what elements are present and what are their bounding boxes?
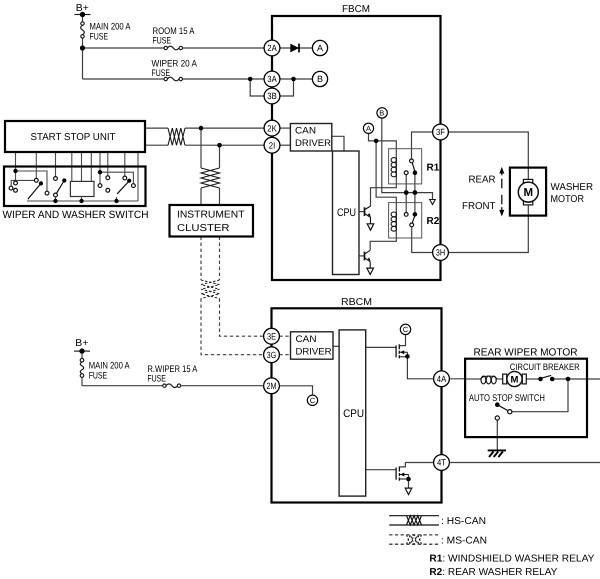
svg-text:R1: WINDSHIELD WASHER RELAY: R1: WINDSHIELD WASHER RELAY: [429, 554, 594, 565]
svg-text:FUSE: FUSE: [89, 371, 108, 382]
svg-text:FUSE: FUSE: [90, 32, 109, 43]
svg-text:START STOP UNIT: START STOP UNIT: [31, 132, 116, 143]
svg-text:WASHER: WASHER: [551, 182, 594, 193]
svg-text:WIPER AND WASHER SWITCH: WIPER AND WASHER SWITCH: [3, 209, 149, 221]
svg-text:C: C: [310, 396, 316, 405]
svg-text:2M: 2M: [267, 381, 277, 391]
svg-text:CAN: CAN: [296, 334, 317, 345]
svg-text:M: M: [524, 187, 534, 199]
svg-text:A: A: [366, 124, 371, 133]
svg-text:R2: REAR WASHER RELAY: R2: REAR WASHER RELAY: [429, 567, 557, 578]
svg-text:FUSE: FUSE: [147, 374, 166, 385]
svg-text:B: B: [317, 74, 323, 84]
svg-text:B+: B+: [75, 338, 88, 349]
svg-text:4T: 4T: [437, 458, 446, 468]
svg-text:: HS-CAN: : HS-CAN: [441, 516, 486, 527]
svg-text:3E: 3E: [267, 331, 276, 341]
svg-text:REAR WIPER MOTOR: REAR WIPER MOTOR: [474, 348, 578, 359]
svg-text:INSTRUMENT: INSTRUMENT: [177, 210, 245, 221]
svg-text:CAN: CAN: [295, 126, 316, 137]
svg-text:: MS-CAN: : MS-CAN: [441, 535, 487, 546]
svg-text:C: C: [403, 325, 409, 334]
svg-text:FBCM: FBCM: [342, 4, 370, 15]
svg-text:B: B: [379, 109, 384, 118]
svg-text:DRIVER: DRIVER: [295, 138, 331, 149]
svg-text:3B: 3B: [267, 91, 276, 101]
svg-text:2K: 2K: [267, 123, 276, 133]
svg-text:4A: 4A: [437, 374, 446, 384]
svg-text:R1: R1: [427, 163, 440, 174]
svg-text:RBCM: RBCM: [341, 297, 372, 308]
svg-text:DRIVER: DRIVER: [296, 347, 332, 358]
svg-text:FUSE: FUSE: [153, 36, 172, 47]
svg-text:B+: B+: [76, 3, 89, 14]
svg-text:CLUSTER: CLUSTER: [177, 223, 230, 234]
svg-text:M: M: [511, 374, 519, 385]
svg-text:FUSE: FUSE: [152, 68, 171, 79]
svg-text:MOTOR: MOTOR: [551, 194, 585, 205]
svg-text:R2: R2: [427, 216, 440, 227]
svg-text:3A: 3A: [267, 74, 276, 84]
svg-text:3H: 3H: [436, 248, 445, 258]
svg-text:CIRCUIT BREAKER: CIRCUIT BREAKER: [510, 362, 580, 372]
svg-text:CPU: CPU: [343, 408, 364, 420]
svg-text:3F: 3F: [436, 127, 445, 137]
svg-text:AUTO STOP SWITCH: AUTO STOP SWITCH: [469, 393, 545, 404]
svg-text:2I: 2I: [269, 140, 276, 150]
svg-text:CPU: CPU: [337, 207, 356, 219]
svg-text:A: A: [317, 43, 323, 53]
svg-text:FRONT: FRONT: [462, 201, 496, 212]
svg-text:3G: 3G: [267, 350, 276, 360]
svg-text:2A: 2A: [267, 43, 276, 53]
svg-text:REAR: REAR: [469, 175, 496, 186]
